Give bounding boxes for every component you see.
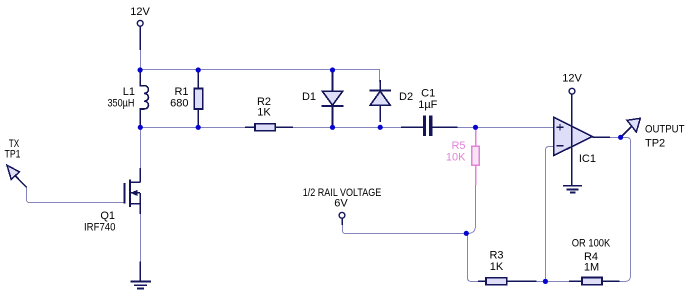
svg-text:TP2: TP2	[645, 138, 665, 150]
svg-text:12V: 12V	[562, 73, 582, 85]
wire source to ground	[140, 214, 142, 262]
svg-text:1µF: 1µF	[418, 99, 437, 111]
svg-text:IRF740: IRF740	[84, 222, 116, 234]
terminal 12V (op-amp supply)	[562, 73, 582, 95]
terminal 12V (main supply)	[130, 6, 150, 50]
wire op-amp output	[592, 136, 610, 138]
resistor R5 (highlighted)	[446, 128, 479, 186]
wire R3 to node	[537, 281, 546, 283]
node C1/R5	[473, 125, 478, 130]
wire D1 to D2 (bottom)	[333, 127, 381, 129]
ground (op-amp)	[563, 186, 582, 193]
node half-rail junction	[464, 231, 469, 236]
svg-text:IC1: IC1	[579, 153, 596, 165]
capacitor C1	[401, 88, 457, 137]
op-amp IC1	[554, 117, 596, 165]
test point TP2 (OUTPUT)	[621, 118, 685, 149]
resistor R2	[245, 96, 293, 131]
svg-text:10K: 10K	[446, 152, 466, 164]
svg-text:D2: D2	[399, 91, 413, 103]
svg-text:C1: C1	[421, 88, 435, 100]
wire op-amp supply pin through to ground pin	[571, 94, 573, 185]
wire 12V to top rail	[140, 50, 142, 70]
transistor Q1	[84, 168, 140, 234]
wire R2 to D1	[293, 127, 333, 129]
wire bottom rail left (L1/R1 to R2)	[141, 127, 247, 129]
diode D2	[370, 80, 413, 122]
resistor R3	[478, 250, 537, 285]
diode D1	[302, 70, 343, 128]
wire feedback node up to op-amp - input	[546, 147, 554, 282]
svg-text:1K: 1K	[257, 107, 271, 119]
svg-text:1K: 1K	[490, 261, 504, 273]
wire R4 right up to output node	[619, 138, 630, 282]
node D1 bottom	[330, 125, 335, 130]
svg-text:R1: R1	[174, 86, 188, 98]
node R3/R4 feedback	[543, 279, 548, 284]
wire drain drop from bottom rail	[140, 128, 142, 169]
svg-text:OUTPUT: OUTPUT	[645, 124, 685, 136]
wire 6V terminal to junction	[343, 225, 467, 234]
node D2 bottom	[378, 125, 383, 130]
svg-text:Q1: Q1	[100, 210, 115, 222]
svg-text:L1: L1	[123, 86, 135, 98]
wire node to R4	[546, 281, 570, 283]
svg-text:R5: R5	[451, 140, 465, 152]
node R1 bottom	[196, 125, 201, 130]
node output	[618, 135, 623, 140]
svg-text:TP1: TP1	[5, 149, 21, 161]
svg-text:R3: R3	[489, 250, 503, 262]
test point TP1 (TX)	[5, 138, 27, 188]
wire top rail	[141, 70, 380, 83]
resistor R4	[569, 238, 619, 285]
wire R5 to half-rail net	[466, 185, 475, 234]
svg-text:12V: 12V	[130, 6, 150, 18]
node D1 top	[330, 67, 335, 72]
svg-text:350µH: 350µH	[108, 98, 135, 110]
node R1 top	[196, 67, 201, 72]
wire C1 to node	[457, 127, 475, 129]
inductor L1	[108, 70, 149, 128]
svg-text:OR 100K: OR 100K	[572, 238, 611, 250]
svg-text:6V: 6V	[334, 198, 348, 210]
svg-text:680: 680	[170, 98, 188, 110]
svg-text:1M: 1M	[584, 262, 599, 274]
wire node to op-amp + input	[476, 127, 554, 129]
terminal 6V half rail voltage	[303, 187, 382, 225]
ground (source)	[130, 262, 150, 289]
wire TP1 to gate	[27, 188, 125, 203]
svg-text:D1: D1	[302, 91, 316, 103]
resistor R1	[170, 70, 203, 128]
wire D2 to C1	[381, 127, 402, 129]
wire junction down to R3 rail	[468, 234, 479, 282]
node L1 top	[138, 67, 143, 72]
node L1 bottom	[138, 125, 143, 130]
